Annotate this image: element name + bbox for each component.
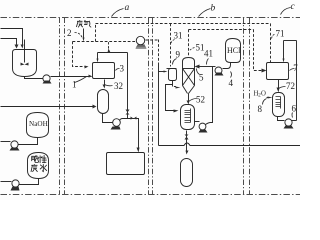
pump P3 — [11, 180, 20, 191]
box 7 — [267, 63, 289, 80]
wire liquid path tank9 to vessel 52 — [166, 85, 175, 111]
wire dashed 71 from header into box 7 top — [270, 24, 272, 63]
wire pump P4 discharge — [120, 119, 128, 121]
svg-text:52: 52 — [196, 95, 205, 105]
wire product line from bridge down — [127, 53, 129, 119]
wire recirculation top run — [284, 40, 297, 42]
svg-text:6: 6 — [292, 104, 297, 114]
svg-text:32: 32 — [114, 81, 123, 91]
boundary left-section right border — [59, 18, 61, 195]
wire HCl pump discharge — [213, 66, 216, 68]
stirrer shaft — [24, 40, 26, 63]
wire box 7 to vessel C arrow 72 — [278, 80, 280, 89]
svg-text:HCl: HCl — [227, 46, 241, 55]
wire vessel 32 to pump P4 — [103, 114, 113, 123]
svg-text:a: a — [125, 3, 130, 13]
svg-text:2: 2 — [67, 28, 72, 38]
valve V3 — [185, 135, 189, 140]
wire H2O feed arrow — [267, 97, 269, 99]
pump P5 — [199, 123, 208, 132]
wire tank 9 bottom stub — [172, 81, 174, 85]
wire vessel 52 to pump P5 — [195, 121, 200, 123]
wire dashed line 51 into column top — [188, 30, 190, 56]
tank acidic wastewater — [28, 153, 49, 179]
wire solid drop to drain header — [158, 64, 160, 146]
svg-text:b: b — [211, 4, 216, 14]
svg-text:9: 9 — [176, 50, 181, 60]
label 72 — [279, 81, 296, 91]
acidic wastewater text row2 — [31, 164, 47, 172]
pump 33 fan — [136, 36, 147, 48]
wire arrow into big tank — [138, 147, 140, 149]
wire vessel C to pump 6 — [278, 117, 285, 121]
wire feed line 2 into reactor — [1, 39, 17, 45]
label 71 — [272, 29, 285, 39]
boundary frame top — [1, 17, 301, 19]
wire pump P1 discharge to box 3 — [51, 76, 89, 78]
wire vessel 52 bottom to valve — [186, 131, 188, 146]
valve V2 horizontal — [131, 117, 137, 120]
label 5 — [197, 69, 205, 83]
pump P4 — [111, 119, 121, 130]
vessel 32 — [98, 90, 109, 114]
label 9 — [173, 50, 181, 65]
svg-text:3: 3 — [120, 64, 125, 74]
label 41 — [204, 49, 213, 65]
box 3 — [93, 63, 115, 79]
label 3 — [116, 64, 125, 74]
wire dashed 51-line drop into box 7 left — [254, 30, 263, 71]
acidic wastewater text row1 — [32, 155, 47, 163]
wire dashed branch 31 to tank 9 — [170, 24, 172, 67]
tank NaOH — [27, 113, 49, 138]
wire recirculation right riser — [296, 41, 298, 121]
label 8 — [258, 99, 267, 115]
svg-text:O: O — [261, 91, 266, 98]
wire HCl tank downpipe — [223, 63, 231, 69]
svg-text:71: 71 — [276, 29, 285, 39]
pump 42 for HCl — [215, 67, 224, 76]
wire drain header to right edge — [159, 143, 301, 146]
label 52 — [189, 95, 206, 105]
svg-text:72: 72 — [286, 81, 295, 91]
wire arrow into capsule tank — [186, 146, 188, 152]
label 7 — [290, 63, 299, 73]
vessel 52 internals — [185, 109, 191, 123]
stirrer impeller — [21, 63, 25, 66]
capsule tank — [181, 159, 193, 187]
svg-text:41: 41 — [204, 49, 213, 59]
wire dashed drop in section b — [158, 40, 160, 64]
wire column 5 feed pipe from pumps — [199, 66, 213, 68]
label 2 — [67, 28, 83, 39]
wire box 3 to vessel 32 — [104, 80, 106, 86]
tank 9 — [167, 69, 177, 81]
svg-text:7: 7 — [293, 63, 298, 73]
vessel 52 — [181, 105, 195, 130]
wire bridge over box 3 — [98, 52, 128, 54]
wire branch arrow into tank 9 — [159, 71, 165, 73]
label b — [199, 4, 216, 17]
label 31 — [171, 31, 183, 45]
reactor vessel — [13, 50, 37, 77]
wire dashed into column cone — [173, 85, 177, 87]
label 32 — [105, 81, 124, 91]
wire dashed branch into box 3 left — [73, 42, 86, 67]
svg-text:31: 31 — [174, 31, 183, 41]
vessel C internals — [276, 97, 281, 109]
wire NaOH tank to pump P2 — [19, 138, 38, 145]
boundary section-c left border — [249, 18, 251, 195]
label 4 — [229, 72, 234, 89]
svg-text:c: c — [291, 2, 296, 12]
valve V1 on product line — [126, 110, 130, 115]
wire feed line into vessel 32 — [1, 106, 93, 108]
boundary section-a left border — [64, 18, 66, 195]
H2O text — [254, 91, 267, 99]
wire bridge arrow down into box 3 — [97, 53, 99, 59]
svg-text:5: 5 — [199, 73, 204, 83]
svg-text:1: 1 — [72, 80, 77, 90]
waste gas text — [76, 20, 91, 27]
wire pump 6 discharge to riser — [292, 120, 297, 122]
wire pump P3 suction from left edge — [1, 181, 12, 183]
big product tank — [107, 153, 145, 175]
wire acid tank to pump P3 — [19, 179, 39, 185]
wire dashed line 51 header over to section c — [189, 29, 254, 31]
svg-text:8: 8 — [258, 104, 263, 114]
wire column bottom into vessel 52 — [188, 94, 190, 101]
label 51 — [190, 43, 205, 53]
tank HCl — [226, 39, 241, 63]
wire waste gas inlet arrow — [83, 29, 85, 39]
boundary section-b left border — [152, 18, 154, 195]
svg-text:NaOH: NaOH — [29, 120, 48, 128]
pump 6 — [284, 119, 294, 129]
wire recirculation into box 7 top — [283, 41, 285, 59]
boundary section-a right border — [148, 18, 150, 195]
wire dashed gas main line in section a — [73, 41, 137, 43]
wire feed line 1 into reactor — [1, 29, 23, 45]
wire dashed riser to header — [95, 24, 97, 42]
column 5 — [183, 58, 195, 94]
pump P2 — [10, 141, 20, 151]
wire pump P5 discharge riser — [206, 67, 213, 125]
wire line to big tank with valve — [128, 119, 139, 147]
label 6 — [292, 104, 297, 118]
wire pump P2 suction from left edge — [1, 141, 11, 143]
label a — [112, 3, 130, 17]
label c — [281, 2, 296, 15]
pump P1 — [43, 75, 52, 84]
boundary section-b right border — [243, 18, 245, 195]
label 1 — [72, 77, 87, 90]
wire bridge arrow up to gas line — [108, 42, 110, 49]
wire reactor outlet to pump P1 — [25, 77, 44, 79]
vessel C water absorber — [273, 93, 285, 117]
wire dashed gas header to section b and c — [96, 23, 271, 25]
svg-text:4: 4 — [229, 78, 234, 88]
boundary frame bottom — [1, 194, 301, 196]
wire fan discharge into section b — [146, 39, 159, 41]
